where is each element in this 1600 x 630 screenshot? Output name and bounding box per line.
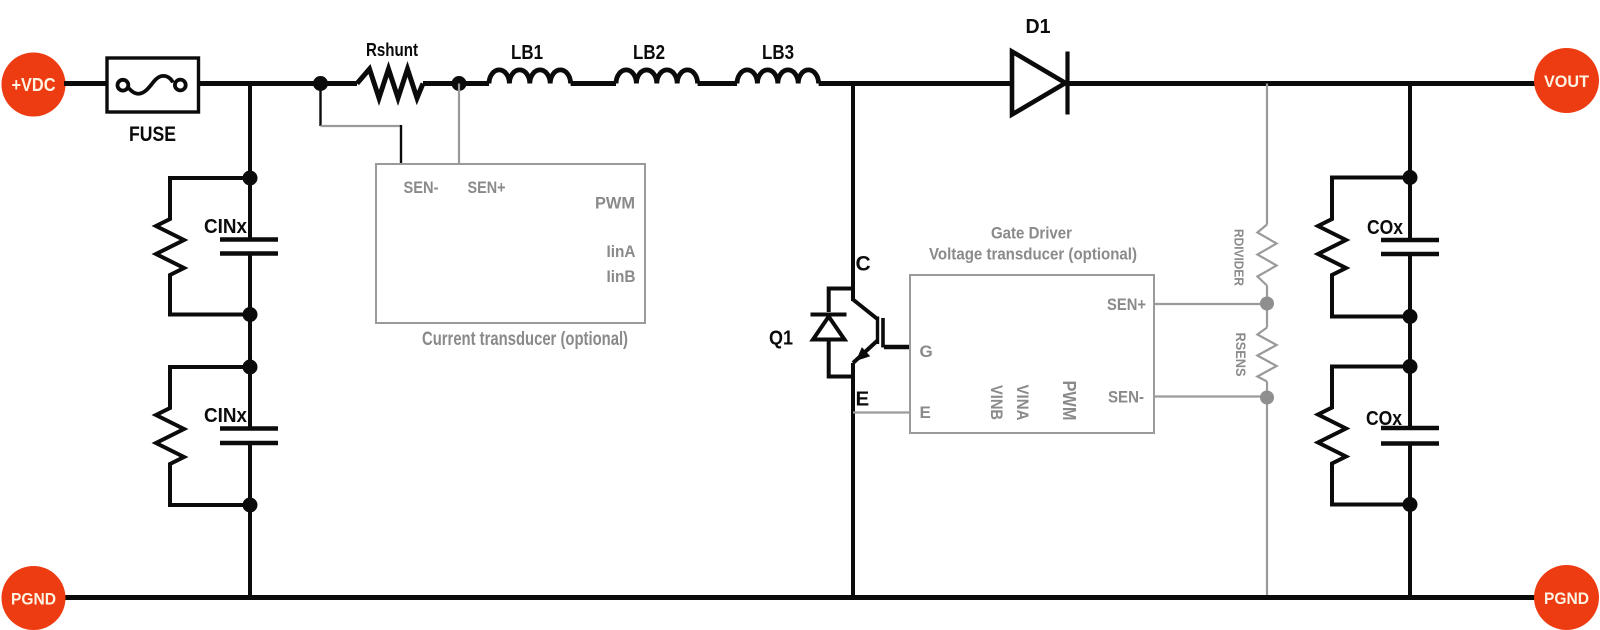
node SEN+ tap — [1260, 297, 1274, 311]
svg-text:PWM: PWM — [1059, 381, 1079, 421]
svg-text:Voltage transducer (optional): Voltage transducer (optional) — [929, 245, 1137, 264]
wire LB3 to D1 — [819, 81, 1013, 86]
terminal PGND right — [1534, 565, 1599, 630]
svg-text:LB1: LB1 — [511, 42, 543, 64]
capacitor COx (lower) — [1366, 408, 1439, 444]
wire bottom rail — [64, 595, 1535, 600]
svg-text:VINB: VINB — [987, 385, 1006, 420]
box gate driver U3 — [910, 224, 1154, 434]
terminal VOUT — [1534, 48, 1599, 113]
wire output rail bottom — [1408, 444, 1412, 599]
inductor LB3 — [737, 42, 819, 84]
svg-text:PGND: PGND — [1544, 589, 1589, 608]
wire sense left black drop — [319, 84, 321, 127]
diode D1 — [1012, 16, 1068, 115]
wire input drop x=250 upper — [248, 84, 252, 240]
svg-text:IinB: IinB — [607, 267, 636, 286]
node CIN2 bottom — [243, 498, 258, 513]
node junction Rshunt left — [313, 76, 328, 91]
svg-text:Rshunt: Rshunt — [366, 40, 418, 60]
svg-text:COx: COx — [1367, 217, 1403, 239]
transistor Q1 IGBT — [769, 300, 910, 364]
svg-text:E: E — [920, 403, 931, 422]
svg-text:CINx: CINx — [204, 405, 247, 427]
resistor CINx2 bleeder with branch — [156, 367, 250, 505]
svg-text:Q1: Q1 — [769, 328, 793, 350]
wire LB2 to LB3 — [698, 81, 737, 86]
svg-text:G: G — [920, 342, 933, 361]
node COx1 top — [1403, 170, 1418, 185]
capacitor CINx (upper) — [204, 216, 278, 254]
wire x=250 between caps — [248, 254, 252, 429]
svg-text:PGND: PGND — [11, 590, 56, 609]
svg-text:SEN+: SEN+ — [468, 178, 506, 197]
inductor LB1 — [489, 42, 571, 84]
wire Rshunt to LB1 — [423, 81, 489, 86]
svg-text:VOUT: VOUT — [1544, 72, 1590, 91]
node COx2 bottom — [1403, 497, 1418, 512]
node SEN- tap — [1260, 391, 1274, 405]
svg-text:E: E — [856, 388, 870, 411]
wire VDC to fuse — [64, 81, 107, 86]
node COx2 top — [1403, 359, 1418, 374]
resistor RDIVIDER — [1232, 225, 1277, 287]
wire E gray to gate driver box — [853, 411, 910, 413]
resistor CINx1 bleeder with branch — [156, 178, 250, 315]
svg-text:LB2: LB2 — [633, 42, 665, 64]
wire x=250 lower — [248, 443, 252, 598]
svg-text:COx: COx — [1366, 408, 1402, 430]
svg-text:D1: D1 — [1026, 16, 1051, 38]
terminal +VDC — [2, 53, 66, 117]
svg-text:IinA: IinA — [607, 242, 636, 261]
terminal PGND left — [2, 566, 66, 630]
box current transducer U2 — [376, 164, 645, 323]
svg-text:Gate Driver: Gate Driver — [991, 224, 1072, 243]
resistor Rshunt — [357, 40, 423, 98]
node junction Rshunt right — [452, 76, 467, 91]
wire D1 to VOUT — [1067, 81, 1535, 86]
node CIN2 top — [243, 360, 258, 375]
capacitor COx (upper) — [1367, 217, 1439, 254]
capacitor CINx (lower) — [204, 405, 278, 443]
wire output rail top — [1408, 84, 1412, 241]
wire divider gray bottom — [1266, 382, 1268, 599]
svg-text:CINx: CINx — [204, 216, 247, 238]
svg-text:SEN-: SEN- — [1108, 388, 1144, 407]
wire Q1 collector drop — [851, 84, 855, 302]
svg-text:PWM: PWM — [595, 194, 635, 213]
svg-text:SEN-: SEN- — [404, 178, 439, 197]
wire SEN+ gray — [1154, 303, 1267, 305]
svg-text:VINA: VINA — [1013, 385, 1032, 421]
svg-text:C: C — [856, 253, 871, 276]
inductor LB2 — [616, 42, 698, 84]
node CIN1 bottom — [243, 307, 258, 322]
wire sense gray horizontal — [321, 125, 402, 127]
resistor RSENS — [1233, 328, 1277, 382]
wire divider gray mid — [1266, 286, 1268, 328]
svg-text:RSENS: RSENS — [1233, 333, 1249, 377]
resistor COx1 bleeder with branch — [1318, 178, 1410, 317]
node COx1 bottom — [1403, 309, 1418, 324]
node CIN1 top — [243, 171, 258, 186]
wire SEN- gray — [1154, 395, 1267, 397]
svg-text:+VDC: +VDC — [12, 75, 56, 95]
svg-text:RDIVIDER: RDIVIDER — [1232, 229, 1247, 287]
wire Q1 emitter drop — [851, 363, 855, 598]
wire divider gray top — [1266, 84, 1268, 225]
wire LB1 to LB2 — [571, 81, 616, 86]
wire sense right gray drop — [458, 84, 460, 165]
svg-text:FUSE: FUSE — [129, 123, 176, 146]
wire sense black drop to box — [400, 125, 402, 164]
resistor COx2 bleeder with branch — [1318, 367, 1410, 505]
svg-text:Current transducer (optional): Current transducer (optional) — [422, 329, 628, 350]
svg-text:SEN+: SEN+ — [1107, 295, 1146, 314]
fuse FUSE — [107, 58, 199, 146]
wire fuse to Rshunt — [199, 81, 357, 86]
diode Q1 freewheel — [811, 289, 854, 377]
wire output rail mid — [1408, 254, 1412, 428]
svg-text:LB3: LB3 — [762, 42, 794, 64]
